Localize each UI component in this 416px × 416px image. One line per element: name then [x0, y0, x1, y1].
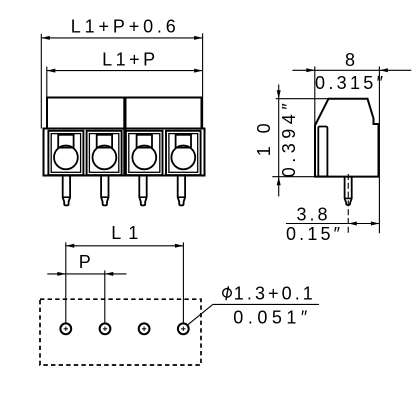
svg-text:3.8: 3.8 [297, 205, 328, 225]
svg-text:L1+P+0.6: L1+P+0.6 [71, 17, 176, 37]
svg-text:8: 8 [345, 50, 355, 70]
svg-text:L1+P: L1+P [102, 50, 155, 70]
svg-text:P: P [79, 252, 91, 272]
